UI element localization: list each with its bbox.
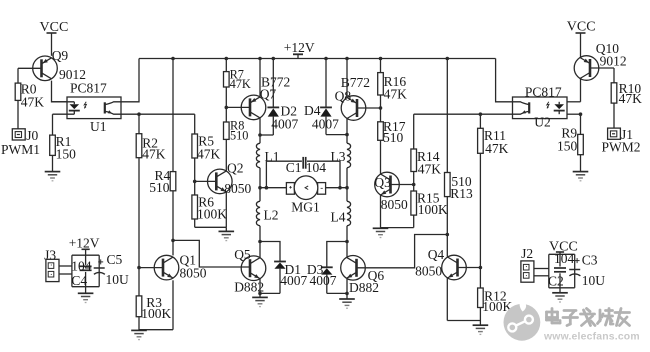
svg-text:47K: 47K	[619, 91, 643, 106]
wire R16 from bus	[379, 57, 383, 73]
capacitor C1 bypass	[265, 157, 342, 190]
label PWM2	[602, 140, 641, 155]
wire R12 bottom	[479, 308, 481, 321]
ground below J2	[552, 288, 568, 302]
resistor R3	[136, 295, 171, 321]
label Q6	[368, 268, 385, 283]
ground below R12	[473, 321, 489, 335]
svg-text:150: 150	[56, 147, 77, 162]
wire R1 to ground	[52, 155, 54, 171]
wire Q2 base	[195, 180, 217, 182]
transistor Q3	[375, 172, 400, 197]
svg-text:Q4: Q4	[428, 247, 445, 262]
wire R17 to Q3 collector	[380, 140, 382, 174]
resistor R2	[136, 134, 166, 162]
svg-text:100K: 100K	[141, 306, 171, 321]
resistor R8	[224, 119, 249, 143]
watermark logo	[504, 300, 541, 341]
wire +12V bus	[139, 58, 496, 60]
inductor L1	[256, 143, 279, 168]
ground below Q5	[252, 293, 268, 306]
node +12V J3	[69, 236, 100, 256]
svg-text:Q2: Q2	[227, 160, 244, 175]
svg-text:C5: C5	[107, 252, 123, 267]
svg-text:www.elecfans.com: www.elecfans.com	[543, 332, 640, 343]
ground below R9	[573, 172, 589, 181]
wire D1 bottom	[260, 269, 280, 294]
label Q1	[180, 253, 197, 268]
capacitor C4 C5 frame	[72, 255, 99, 287]
wire R16 to R17	[380, 95, 382, 122]
svg-text:10U: 10U	[582, 273, 606, 288]
wire R9 to ground	[580, 155, 582, 172]
svg-text:PC817: PC817	[70, 80, 107, 95]
U1 LED	[52, 102, 80, 114]
wire U1 cathode to R1	[52, 114, 54, 135]
wire Q4 emitter	[447, 278, 480, 321]
svg-text:47K: 47K	[197, 147, 221, 162]
svg-text:4007: 4007	[312, 116, 339, 131]
node VCC J2	[549, 239, 578, 254]
label D3	[307, 262, 324, 277]
label 4007 D3	[310, 273, 337, 288]
node VCC left	[40, 20, 69, 56]
svg-text:Q8: Q8	[335, 88, 352, 103]
resistor R15	[411, 190, 448, 217]
op-amp U1 optocoupler PC817 box	[67, 80, 121, 134]
label PWM1	[1, 142, 40, 157]
wire D1 link	[260, 242, 280, 262]
resistor R14	[411, 149, 441, 176]
wire Q7 base	[226, 106, 250, 108]
wire Q3 base	[391, 183, 416, 187]
label Q5	[234, 247, 251, 262]
wire Q8 emitter from bus	[345, 57, 349, 98]
wire L2 to Q5 collector	[258, 226, 262, 244]
wire L1 to motor node	[258, 168, 262, 190]
transistor Q4	[442, 255, 467, 280]
svg-text:47K: 47K	[230, 77, 251, 91]
wire R3 to ground	[138, 317, 140, 331]
label 4007 D2	[271, 116, 298, 131]
watermark url www.elecfans.com	[543, 332, 640, 343]
wire R7 to Q7 base node	[225, 87, 229, 122]
svg-text:8050: 8050	[224, 181, 251, 196]
svg-text:47K: 47K	[142, 147, 166, 162]
ground below J3	[78, 287, 94, 303]
U2 light arrow	[547, 102, 549, 109]
wire Q7 emitter from bus	[258, 57, 262, 97]
wire Q9 base	[18, 68, 42, 83]
svg-text:PWM2: PWM2	[602, 140, 641, 155]
svg-text:104: 104	[71, 259, 92, 274]
wire Q5 emitter	[258, 279, 262, 296]
wire motor right	[326, 187, 347, 189]
label 8050 Q4	[415, 263, 442, 278]
wire Q6 base link	[357, 235, 448, 268]
label 8050 Q3	[381, 197, 408, 212]
label 8050 Q1	[180, 265, 207, 280]
label 4007 D4	[312, 116, 339, 131]
ground below Q3	[373, 228, 389, 237]
transistor Q7	[241, 95, 266, 120]
capacitor C5	[94, 252, 129, 287]
label Q4	[428, 247, 445, 262]
node +12V tap	[284, 40, 315, 58]
label D882 Q6	[349, 280, 379, 295]
resistor R16	[378, 73, 407, 102]
ground below R1	[45, 172, 61, 181]
label 9012	[59, 67, 86, 82]
wire motor left	[260, 187, 286, 189]
svg-text:C1: C1	[286, 160, 302, 175]
wire R0 to J0	[17, 100, 19, 128]
svg-text:D882: D882	[349, 280, 379, 295]
wire R11 top	[479, 114, 481, 128]
svg-text:PWM1: PWM1	[1, 142, 40, 157]
wire Q6 collector	[346, 242, 348, 258]
capacitor C2 C3 frame	[549, 254, 575, 287]
svg-text:R13: R13	[450, 186, 473, 201]
wire R9 top	[580, 114, 582, 134]
wire Q4 base node to R12	[479, 268, 481, 289]
label D882 Q5	[234, 280, 264, 295]
wire L3 top	[346, 135, 348, 144]
wire R7 from bus	[225, 57, 229, 72]
resistor R4	[149, 168, 176, 195]
svg-text:MG1: MG1	[291, 199, 320, 214]
svg-text:J2: J2	[521, 246, 533, 261]
svg-text:8050: 8050	[381, 197, 408, 212]
inductor L3	[331, 143, 351, 168]
wire motor node to L4	[346, 188, 348, 202]
wire Q5 collector	[259, 242, 261, 258]
svg-text:Q9: Q9	[52, 48, 69, 63]
svg-text:+12V: +12V	[284, 40, 315, 55]
svg-text:C2: C2	[548, 274, 564, 289]
wire Q6 emitter	[345, 278, 349, 295]
svg-text:J0: J0	[26, 128, 38, 143]
svg-text:104: 104	[554, 251, 575, 266]
wire R5 to R6	[193, 158, 197, 195]
svg-text:8050: 8050	[415, 263, 442, 278]
label D2	[281, 103, 298, 118]
wire Q4 base	[458, 266, 483, 270]
capacitor C2	[548, 251, 575, 288]
wire Q8 base	[357, 106, 382, 110]
wire D2 to bus	[272, 57, 276, 108]
U2 phototransistor	[513, 102, 530, 114]
svg-text:C3: C3	[582, 253, 598, 268]
resistor R13	[445, 173, 474, 202]
svg-text:C4: C4	[71, 273, 87, 288]
transistor Q1	[154, 255, 179, 280]
wire Q8 collector	[345, 119, 349, 137]
transistor Q6	[341, 255, 366, 280]
wire Q7 collector	[258, 118, 262, 137]
svg-text:10U: 10U	[106, 272, 130, 287]
ground below Q6	[339, 293, 355, 308]
label 4007 D1	[280, 273, 307, 288]
inductor L4	[331, 201, 351, 226]
resistor R9	[557, 125, 583, 154]
wire Q3 emitter	[380, 195, 382, 228]
wire L3 to motor node	[345, 168, 349, 190]
svg-text:+12V: +12V	[69, 236, 100, 251]
diode D4	[320, 107, 332, 116]
wire U1 pin3 out	[121, 112, 141, 116]
wire Q9 collector to U1 pin1	[52, 81, 68, 102]
connector J1	[608, 127, 633, 142]
svg-text:510: 510	[383, 130, 404, 145]
label 9012 Q10	[600, 54, 627, 69]
svg-text:47K: 47K	[21, 94, 45, 109]
wire D3 bottom	[327, 275, 347, 294]
wire U2 cathode pin	[567, 112, 582, 116]
wire R13 from bus	[446, 57, 450, 173]
svg-text:L2: L2	[264, 207, 279, 222]
svg-text:4007: 4007	[271, 116, 298, 131]
connector J3	[44, 248, 59, 282]
label Q2	[227, 160, 244, 175]
resistor R6	[192, 195, 227, 222]
transistor Q8	[341, 96, 366, 121]
wire U2 emitter net	[414, 112, 513, 116]
svg-text:4007: 4007	[280, 273, 307, 288]
wire J3 pins	[59, 266, 72, 274]
transistor Q5	[241, 256, 266, 281]
resistor R17	[378, 119, 406, 145]
svg-text:47K: 47K	[485, 141, 509, 156]
svg-text:150: 150	[557, 138, 578, 153]
wire R4 to Q1 collector	[171, 191, 175, 256]
wire Q10 base	[590, 68, 614, 83]
wire U2 anode pin	[567, 101, 581, 103]
wire R6 bottom to emitter node	[195, 219, 227, 227]
node VCC right	[567, 20, 596, 58]
svg-text:510: 510	[230, 129, 248, 143]
label Q7	[260, 86, 277, 101]
svg-text:100K: 100K	[418, 202, 448, 217]
diode D2	[267, 107, 279, 116]
wire Q1 base	[139, 267, 162, 269]
svg-text:U1: U1	[90, 119, 107, 134]
label Q9	[52, 48, 69, 63]
wire R2 chain top	[138, 114, 140, 134]
capacitor C3	[569, 253, 605, 289]
svg-text:PC817: PC817	[525, 84, 562, 99]
ground below Q2	[219, 227, 235, 240]
U2 LED	[554, 102, 565, 114]
transistor Q10	[574, 56, 599, 81]
label D1	[285, 262, 302, 277]
svg-text:100K: 100K	[197, 207, 227, 222]
label 8050 Q2	[224, 181, 251, 196]
wire R4 from bus	[171, 57, 175, 172]
wire R15 bottom	[413, 215, 415, 228]
resistor R1	[50, 134, 76, 162]
wire Q2 emitter	[225, 192, 227, 227]
wire L1 top	[259, 135, 261, 143]
label Q10	[596, 41, 619, 56]
wire J2 pins	[534, 269, 549, 276]
inductor L2	[256, 201, 278, 226]
wire L4 to Q6 collector	[345, 226, 349, 244]
connector J2	[521, 246, 534, 282]
motor MG1	[286, 176, 325, 214]
wire motor node to L2	[259, 188, 261, 202]
wire R11 to Q4 base	[479, 153, 481, 267]
wire R10 to J1	[613, 103, 615, 128]
wire Q1 emitter to ground	[139, 280, 173, 329]
resistor R10	[611, 81, 642, 106]
wire D2 link	[260, 117, 273, 135]
capacitor C4	[71, 259, 92, 288]
wire D4 to bus	[324, 57, 328, 108]
wire Q2 collector to R8	[225, 139, 227, 171]
diode D1	[274, 262, 286, 269]
U1 light arrow	[84, 102, 86, 109]
svg-text:Q3: Q3	[374, 175, 391, 190]
svg-text:U2: U2	[534, 114, 551, 129]
svg-text:104: 104	[306, 160, 327, 175]
resistor R0	[15, 81, 44, 109]
connector J0	[12, 128, 38, 143]
label B772 Q8	[341, 75, 370, 90]
wire R14 to R15	[413, 172, 415, 192]
resistor R11	[478, 128, 509, 156]
wire R5 branch	[194, 114, 196, 134]
svg-text:9012: 9012	[600, 54, 627, 69]
diode D3	[321, 267, 333, 274]
label Q8	[335, 88, 352, 103]
wire bus left drop to U1 pin4	[121, 59, 139, 102]
wire D4 link	[326, 117, 347, 135]
wire U1 emitter net	[139, 113, 195, 115]
wire R14 branch	[413, 114, 415, 149]
svg-text:47K: 47K	[384, 87, 408, 102]
resistor R12	[478, 288, 513, 314]
wire R13 to Q4 collector	[446, 197, 450, 257]
resistor R5	[192, 134, 221, 162]
U1 phototransistor	[105, 102, 121, 114]
label B772 Q7	[261, 74, 290, 89]
wire R15 bottom to Q3 emitter	[381, 227, 414, 229]
svg-text:47K: 47K	[418, 161, 442, 176]
transistor Q9	[33, 56, 58, 81]
label Q3	[374, 175, 391, 190]
wire R2 to Q1 base node	[137, 158, 141, 270]
svg-text:L4: L4	[331, 210, 346, 225]
transistor Q2	[208, 169, 233, 194]
wire Q10 collector drop	[580, 79, 582, 102]
watermark text placeholder	[547, 309, 630, 326]
ground below R3	[131, 330, 147, 339]
op-amp U2 optocoupler PC817 box	[513, 84, 568, 129]
wire link Q1 collector to Q5 base	[173, 240, 250, 267]
resistor R7	[224, 67, 251, 91]
label D4	[304, 103, 321, 118]
wire bus right drop to U2 pin4	[496, 59, 513, 102]
svg-text:4007: 4007	[310, 273, 337, 288]
svg-text:Q5: Q5	[234, 247, 251, 262]
wire D3 link	[327, 242, 347, 268]
svg-text:510: 510	[149, 180, 170, 195]
wire node to R3	[138, 268, 140, 296]
